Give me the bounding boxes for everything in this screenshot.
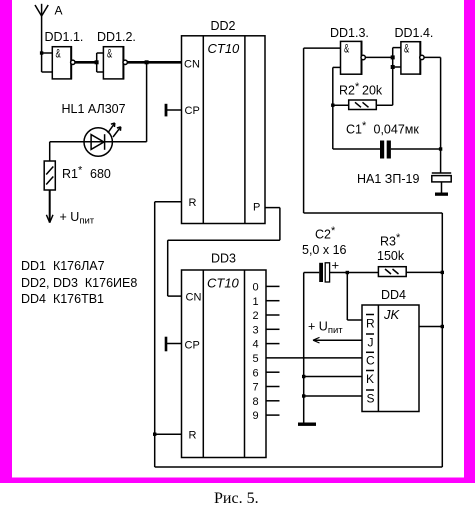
ground bar <box>298 423 316 426</box>
capacitor C2 <box>304 263 379 282</box>
resistor R1 <box>44 142 55 190</box>
capacitor C1 <box>333 141 441 159</box>
wire DD3 R <box>155 433 182 435</box>
magenta frame right bar <box>464 0 475 483</box>
DD3 CP terminator <box>166 337 182 352</box>
svg-text:+: + <box>332 258 340 273</box>
svg-text:CN: CN <box>184 59 200 71</box>
svg-text:S: S <box>367 392 375 406</box>
svg-text:CT10: CT10 <box>208 41 241 56</box>
node C2 right <box>346 271 349 274</box>
svg-text:2: 2 <box>253 310 259 322</box>
node DD1.2 input tie <box>95 60 99 64</box>
svg-text:&: & <box>56 47 61 61</box>
svg-text:A: A <box>55 4 63 18</box>
LED HL1 <box>84 123 121 156</box>
svg-text:JK: JK <box>383 307 401 322</box>
wire DD4 S <box>304 395 362 397</box>
gate DD1.2 <box>103 46 127 80</box>
wire RC node vertical <box>332 67 334 149</box>
svg-text:R: R <box>366 317 375 331</box>
svg-text:5: 5 <box>253 353 259 365</box>
resistor R2 <box>333 100 393 110</box>
wire LED horizontal <box>50 141 147 143</box>
node DD4 K <box>302 375 305 378</box>
wire DD2 R <box>155 202 182 467</box>
svg-text:K: K <box>366 372 374 386</box>
svg-text:DD1.2.: DD1.2. <box>97 30 136 44</box>
svg-text:6: 6 <box>253 367 259 379</box>
wire reset net vertical and horizontal <box>304 48 443 213</box>
svg-text:HL1 АЛ307: HL1 АЛ307 <box>62 102 126 116</box>
wire DD1.3 inputs <box>304 48 341 67</box>
svg-text:C: C <box>366 354 375 368</box>
svg-text:CP: CP <box>185 105 200 117</box>
DD4 pin overbars <box>366 315 374 391</box>
node DD4 output <box>441 325 444 328</box>
gate DD1.3 <box>341 41 366 75</box>
svg-text:R: R <box>189 197 197 209</box>
svg-text:CN: CN <box>186 292 202 304</box>
DD3 output stubs 0-9 <box>266 286 280 415</box>
wire R1 to +U with arrow <box>46 190 53 223</box>
svg-text:0: 0 <box>253 282 259 294</box>
wire DD1.4 out down to piezo <box>424 57 441 172</box>
antenna A mast <box>35 4 48 53</box>
wire DD3 out5 to DD4 C <box>266 357 362 359</box>
wire DD1.1 out to DD1.2 in <box>75 61 97 64</box>
svg-text:CT10: CT10 <box>207 276 240 291</box>
counter DD2 <box>182 36 266 224</box>
svg-text:DD2: DD2 <box>211 19 236 33</box>
labels DD3 outputs 0-9 <box>253 282 259 423</box>
counter DD3 <box>182 270 267 458</box>
magenta frame bottom bar <box>0 478 475 484</box>
svg-text:НА1 ЗП-19: НА1 ЗП-19 <box>357 172 419 186</box>
svg-text:150k: 150k <box>377 249 405 263</box>
svg-text:5,0 x 16: 5,0 x 16 <box>302 243 347 257</box>
resistor R3 <box>378 267 442 277</box>
wire DD1.2 out to DD2 CN <box>127 61 181 64</box>
svg-text:DD3: DD3 <box>211 252 236 266</box>
svg-text:7: 7 <box>253 382 259 394</box>
node R2 left <box>331 104 334 107</box>
svg-text:DD2, DD3 К176ИЕ8: DD2, DD3 К176ИЕ8 <box>21 276 137 290</box>
node R3 right <box>441 271 444 274</box>
wire bottom reset line <box>155 213 443 467</box>
svg-text:&: & <box>344 42 349 56</box>
magenta frame left bar <box>0 0 12 483</box>
node DD1.3 out tie <box>391 55 395 59</box>
svg-text:Рис. 5.: Рис. 5. <box>214 490 259 507</box>
svg-text:C1*0,047мк: C1*0,047мк <box>346 120 419 137</box>
flip-flop DD4 <box>362 305 419 412</box>
wire DD4 R from C2 node <box>347 273 362 321</box>
svg-text:&: & <box>404 42 409 56</box>
svg-text:9: 9 <box>253 410 259 422</box>
wire C2 to ground vertical <box>303 273 305 423</box>
wire DD4 J with supply arrow <box>313 337 362 343</box>
svg-text:DD1.1.: DD1.1. <box>45 30 84 44</box>
node LED branch <box>145 60 149 64</box>
svg-text:DD1.3.: DD1.3. <box>330 26 369 40</box>
wire DD4 output <box>419 326 442 328</box>
DD2 CP terminator <box>166 104 182 117</box>
gate DD1.4 <box>401 41 424 75</box>
svg-text:4: 4 <box>253 339 259 351</box>
wire DD4 K <box>304 376 362 378</box>
svg-text:DD4: DD4 <box>381 288 406 302</box>
piezo HA1 <box>432 173 451 196</box>
svg-text:DD1.4.: DD1.4. <box>395 26 434 40</box>
svg-text:CP: CP <box>185 340 200 352</box>
wire DD1.2 input tie <box>97 53 104 72</box>
svg-text:DD4 К176ТВ1: DD4 К176ТВ1 <box>21 292 104 306</box>
node DD3 R tap <box>153 433 156 436</box>
wire DD1.4 input tie <box>393 48 401 106</box>
svg-text:&: & <box>107 47 112 61</box>
wire antenna to DD1.1 inputs <box>42 53 53 72</box>
wire LED branch down <box>146 62 148 142</box>
wire DD2 P to DD3 CN <box>168 208 280 297</box>
wire DD1.3 out <box>365 56 392 58</box>
svg-text:J: J <box>368 336 374 350</box>
svg-text:3: 3 <box>253 324 259 336</box>
svg-text:1: 1 <box>253 296 259 308</box>
gate DD1.1 <box>52 46 75 80</box>
node DD1.4 lower input <box>391 65 395 69</box>
node DD4 S <box>302 394 305 397</box>
node antenna junction <box>40 51 43 54</box>
svg-text:8: 8 <box>253 396 259 408</box>
svg-text:R: R <box>189 430 197 442</box>
svg-text:P: P <box>253 202 260 214</box>
node C1 right <box>439 147 442 150</box>
svg-text:DD1 К176ЛА7: DD1 К176ЛА7 <box>21 259 105 273</box>
